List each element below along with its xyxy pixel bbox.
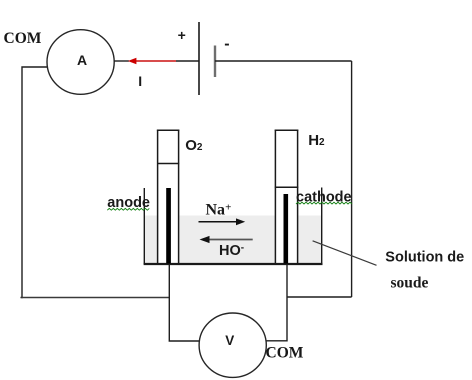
svg-text:H2: H2 (308, 132, 325, 149)
solution of soda (electrolyte fill) (145, 216, 322, 265)
electrode anode (bar) (166, 188, 171, 264)
svg-text:COM: COM (4, 30, 42, 47)
wire right side down (351, 61, 353, 297)
svg-text:A: A (77, 52, 87, 68)
wire cathode lead down (266, 264, 287, 341)
svg-text:+: + (178, 27, 186, 43)
svg-text:COM: COM (266, 344, 304, 361)
wire bottom-left horizontal to anode lead (21, 297, 169, 299)
arrow Na+ migration (right) (199, 218, 246, 225)
electrode cathode (bar) (284, 194, 289, 264)
wire battery negative to right side (215, 60, 352, 62)
svg-text:HO-: HO- (219, 242, 244, 258)
arrow HO- migration (left) (200, 236, 253, 243)
ammeter U1 (47, 30, 114, 95)
svg-text:I: I (138, 73, 142, 89)
svg-text:Solution de: Solution de (385, 250, 464, 266)
svg-text:soude: soude (391, 275, 429, 292)
wire left loop: ammeter left terminal down and across bottom (21, 67, 48, 298)
wire ammeter right terminal (114, 60, 129, 62)
test tube O2 (white body) (158, 130, 178, 263)
battery B1 negative plate (214, 46, 216, 78)
voltmeter U2 (199, 313, 266, 377)
pointer line to solution (313, 241, 377, 265)
svg-text:O2: O2 (185, 137, 203, 154)
wire arrow to battery positive (176, 60, 199, 62)
wire bottom right to cathode lead (287, 296, 352, 298)
current arrow I (red) (128, 58, 176, 65)
beaker (left wall, bottom, right wall) (144, 188, 323, 265)
svg-text:V: V (225, 333, 234, 348)
svg-text:-: - (224, 36, 229, 53)
battery B1 positive plate (198, 22, 200, 95)
wire anode lead to voltmeter (169, 264, 199, 341)
test tube H2 (white body) (276, 130, 297, 263)
